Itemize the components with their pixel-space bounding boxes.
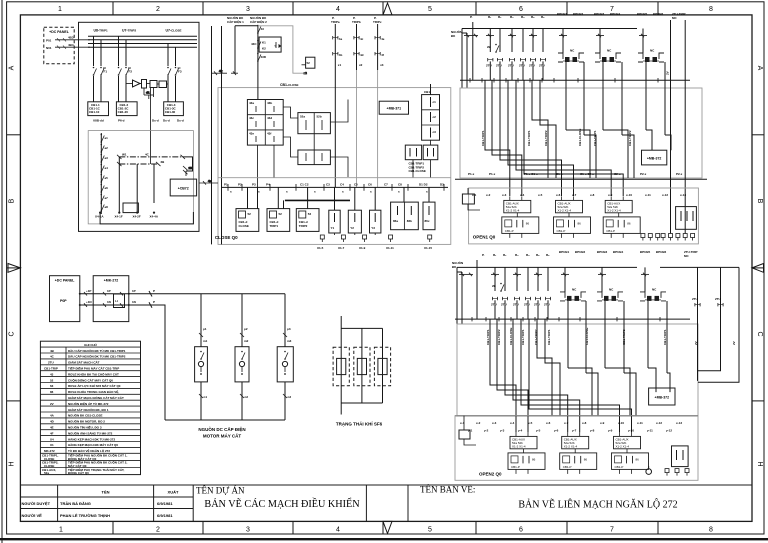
svg-text:43: 43 xyxy=(50,372,54,376)
bracket feed stubs open2 xyxy=(565,267,645,292)
SF6 drop tail xyxy=(340,403,342,415)
left center mark triangle xyxy=(8,264,20,273)
left long verticals xyxy=(212,26,222,244)
svg-text:y-8: y-8 xyxy=(590,429,595,433)
svg-text:P1-x C1-x: P1-x C1-x xyxy=(524,172,538,176)
svg-text:p1: p1 xyxy=(203,327,207,331)
svg-text:m1: m1 xyxy=(203,339,208,343)
svg-text:n3: n3 xyxy=(288,395,292,399)
label pair open2 2 xyxy=(597,250,624,254)
aux box CB1-1 xyxy=(88,102,109,116)
svg-text:x-9: x-9 xyxy=(600,421,605,425)
svg-text:4x: 4x xyxy=(219,69,223,73)
svg-text:OPEN1 Q0: OPEN1 Q0 xyxy=(473,235,496,240)
svg-text:CLOSE: CLOSE xyxy=(239,224,249,228)
block outline OPEN2 (grey) xyxy=(457,324,698,416)
svg-text:2TU: 2TU xyxy=(544,302,550,306)
open2 mesh elbows xyxy=(490,319,632,432)
open1 rotated wire labels xyxy=(481,129,632,146)
bus tick labels xyxy=(224,183,444,194)
svg-text:+1P: +1P xyxy=(86,289,91,293)
svg-text:BẢN VẼ LIÊN MẠCH NGĂN LỘ 272: BẢN VẼ LIÊN MẠCH NGĂN LỘ 272 xyxy=(518,499,677,511)
svg-text:43e: 43e xyxy=(249,131,254,135)
svg-text:CB1-CLOSE: CB1-CLOSE xyxy=(578,129,582,146)
svg-text:X1-15: X1-15 xyxy=(424,246,432,250)
terminal row close block xyxy=(320,235,431,242)
svg-text:a1: a1 xyxy=(105,136,109,140)
svg-text:x-13: x-13 xyxy=(676,421,682,425)
svg-text:x3: x3 xyxy=(380,63,384,67)
svg-text:c3: c3 xyxy=(433,130,437,134)
legend row texts xyxy=(42,348,127,475)
wire feeder top link xyxy=(235,26,258,73)
relay group 2 open1 xyxy=(554,196,591,238)
svg-text:NGUỒN DC CẤP ĐIỆN: NGUỒN DC CẤP ĐIỆN xyxy=(198,425,245,432)
svg-text:6/9/1981: 6/9/1981 xyxy=(157,501,173,506)
output coil box 6 xyxy=(370,210,381,233)
output box 8 xyxy=(423,202,435,230)
relay group 3 open1 xyxy=(603,196,640,238)
svg-text:4B3: 4B3 xyxy=(68,36,74,40)
label pair 2TU 3 xyxy=(637,12,664,16)
svg-text:n1: n1 xyxy=(204,395,208,399)
svg-text:DẦU CẤP NGUỒN ĐK TỦ MK CB1-TRI: DẦU CẤP NGUỒN ĐK TỦ MK CB1-TRIP2 xyxy=(68,354,126,359)
divider line open2 xyxy=(455,415,698,417)
svg-text:P4: P4 xyxy=(266,183,270,187)
aux box CB1-2 xyxy=(116,102,137,116)
svg-text:43D: 43D xyxy=(261,55,267,59)
relay matrix B xyxy=(298,113,331,134)
svg-text:X1-11: X1-11 xyxy=(386,246,394,250)
contact 43a xyxy=(257,25,264,34)
relay aux contact K2 xyxy=(150,81,157,88)
bottom thick scan line xyxy=(0,538,768,540)
bus P01 xyxy=(88,35,197,37)
svg-text:x-9: x-9 xyxy=(608,193,613,197)
label group R open2 xyxy=(493,253,550,257)
bus mid dark xyxy=(221,186,448,188)
open1 lower label row xyxy=(472,193,686,197)
relay aux contact K1 xyxy=(142,80,147,89)
svg-text:XUẤT: XUẤT xyxy=(168,490,179,495)
svg-text:2TU: 2TU xyxy=(539,64,545,68)
far right vertical 2 open2 xyxy=(698,267,721,370)
panel +CB72 box xyxy=(170,179,196,196)
relay group 1 open1 xyxy=(502,196,539,238)
svg-text:ĐPUB5: ĐPUB5 xyxy=(640,250,651,254)
svg-text:43d: 43d xyxy=(267,116,272,120)
panel +DC PANEL (solid) xyxy=(50,276,80,322)
SF6 dashed box 3 xyxy=(374,347,390,386)
svg-text:43C: 43C xyxy=(251,42,257,46)
svg-text:2TU: 2TU xyxy=(715,297,721,301)
svg-text:CLOSE Q0: CLOSE Q0 xyxy=(215,235,238,240)
SF6 dashed box 1 xyxy=(333,347,349,386)
svg-text:TRIPc: TRIPc xyxy=(373,20,382,24)
svg-text:43: 43 xyxy=(261,27,265,31)
block outline CLOSE (grey) xyxy=(218,88,451,245)
svg-text:CB1-TRIP: CB1-TRIP xyxy=(44,367,58,371)
svg-text:P: P xyxy=(153,289,155,293)
TITLE BLOCK xyxy=(20,485,752,521)
svg-text:x-12: x-12 xyxy=(662,193,668,197)
svg-text:C8: C8 xyxy=(398,183,402,187)
title block row lines xyxy=(20,496,193,498)
svg-text:4: 4 xyxy=(336,527,340,534)
wire SF6 drop 2 xyxy=(361,328,363,403)
contact 4B xyxy=(487,44,499,53)
svg-text:BẢN VẼ CÁC MẠCH ĐIỀU KHIỂN: BẢN VẼ CÁC MẠCH ĐIỀU KHIỂN xyxy=(204,497,360,510)
motor branch 1 xyxy=(195,294,208,420)
svg-text:U8B-dd: U8B-dd xyxy=(93,119,104,123)
svg-text:y-9: y-9 xyxy=(608,429,613,433)
svg-text:C4: C4 xyxy=(340,183,344,187)
svg-text:x-3: x-3 xyxy=(492,421,497,425)
aux box D1 xyxy=(405,145,421,160)
wire tick marks P xyxy=(84,291,152,297)
svg-text:x2: x2 xyxy=(359,63,363,67)
contact 4B open2 xyxy=(492,283,504,292)
svg-text:a5: a5 xyxy=(105,176,109,180)
svg-text:P1: P1 xyxy=(224,183,228,187)
relay group 1 open2 xyxy=(508,432,545,474)
top zone numbers xyxy=(58,6,713,13)
svg-text:2V: 2V xyxy=(732,341,736,345)
terminal labels close block xyxy=(317,246,432,250)
svg-text:X1-9: X1-9 xyxy=(359,246,366,250)
svg-text:52b: 52b xyxy=(317,115,322,119)
left twin feed wires xyxy=(462,29,467,89)
svg-text:4: 4 xyxy=(336,6,340,13)
svg-text:2TU: 2TU xyxy=(519,64,525,68)
svg-text:43f: 43f xyxy=(267,131,271,135)
svg-text:CB1-TRIP1: CB1-TRIP1 xyxy=(486,329,490,345)
svg-text:Y2: Y2 xyxy=(350,226,354,230)
label NGUON DK column 2 xyxy=(250,15,267,24)
SF6 collector xyxy=(341,402,382,404)
svg-text:CB1-TRIP1: CB1-TRIP1 xyxy=(663,329,667,345)
svg-text:4E: 4E xyxy=(50,426,54,430)
svg-text:1P: 1P xyxy=(107,289,111,293)
svg-text:K1: K1 xyxy=(262,41,266,45)
svg-text:86c: 86c xyxy=(425,219,430,223)
bus N01 xyxy=(88,39,197,41)
collector line open1 xyxy=(460,79,690,81)
label pair open2 3 xyxy=(640,250,667,254)
svg-text:y-12: y-12 xyxy=(666,429,672,433)
right center mark triangle xyxy=(752,264,764,273)
contact continuation drops open2 xyxy=(495,300,548,319)
wire close feeder xyxy=(257,26,259,100)
svg-text:C2-x: C2-x xyxy=(614,172,621,176)
label NGUON DK column 1 xyxy=(227,15,244,24)
open2 label row 1 xyxy=(460,421,682,425)
svg-text:Dx-d: Dx-d xyxy=(177,119,184,123)
svg-text:NGUỒN TÍN HIỆU, ĐO 3: NGUỒN TÍN HIỆU, ĐO 3 xyxy=(68,425,102,430)
legend rows xyxy=(40,353,140,468)
svg-text:ĐPUB2: ĐPUB2 xyxy=(573,12,584,16)
aux box CB1-1 text xyxy=(89,103,101,114)
branch 3 supply wires xyxy=(168,44,176,102)
svg-text:6: 6 xyxy=(519,6,523,13)
svg-text:2TU: 2TU xyxy=(486,64,492,68)
svg-text:1P: 1P xyxy=(132,289,136,293)
svg-text:C1-x: C1-x xyxy=(556,172,563,176)
top center mark triangle xyxy=(383,3,392,15)
svg-text:+DC PANEL: +DC PANEL xyxy=(49,30,70,34)
panel box +MB-372 open2 xyxy=(649,388,675,405)
svg-text:R₃: R₃ xyxy=(510,15,514,19)
svg-text:TÊN DỰ ÁN: TÊN DỰ ÁN xyxy=(196,486,245,496)
svg-text:x-5: x-5 xyxy=(528,421,533,425)
label pair 2TU 2 xyxy=(594,12,621,16)
svg-text:X1-7: X1-7 xyxy=(338,246,345,250)
meter box open1 xyxy=(676,207,697,230)
svg-text:y-7: y-7 xyxy=(572,429,577,433)
svg-text:C: C xyxy=(9,331,16,336)
connector marks right xyxy=(183,166,193,174)
branch 2 supply wires xyxy=(119,36,127,102)
svg-text:2TU: 2TU xyxy=(491,302,497,306)
svg-text:TÊN: TÊN xyxy=(102,490,110,495)
svg-text:d1: d1 xyxy=(146,90,150,94)
svg-text:X4: X4 xyxy=(50,437,54,441)
matrix link wires xyxy=(258,100,349,188)
relay logic wires xyxy=(126,84,168,98)
svg-text:7: 7 xyxy=(610,527,614,534)
contact row cluster xyxy=(488,58,546,61)
svg-text:x-8: x-8 xyxy=(582,421,587,425)
svg-text:4d: 4d xyxy=(360,53,364,57)
labels under branch boxes xyxy=(93,119,184,123)
svg-text:CB1-TRIP1: CB1-TRIP1 xyxy=(527,130,531,146)
svg-text:RƠLE KHÓA ĐK TẠI CHỖ MÁY CẮT: RƠLE KHÓA ĐK TẠI CHỖ MÁY CẮT xyxy=(68,371,119,376)
svg-text:CUỘN ĐÓNG CẮT MÁY CẮT Q0: CUỘN ĐÓNG CẮT MÁY CẮT Q0 xyxy=(68,377,113,382)
svg-text:y-3: y-3 xyxy=(500,429,505,433)
bottom motor bus xyxy=(165,419,285,421)
bus open1 top xyxy=(462,28,637,30)
svg-text:H: H xyxy=(9,461,16,466)
svg-text:TRẠNG THÁI KHÍ SF6: TRẠNG THÁI KHÍ SF6 xyxy=(336,420,383,427)
motor branch 3 xyxy=(277,294,293,420)
svg-text:x-4: x-4 xyxy=(510,421,515,425)
wire SF6 feed stem xyxy=(340,316,342,403)
svg-text:a3: a3 xyxy=(105,156,109,160)
relay group 2 open2 xyxy=(560,432,597,474)
svg-text:8: 8 xyxy=(709,527,713,534)
svg-text:C6: C6 xyxy=(368,183,372,187)
svg-text:C1-x C2-x: C1-x C2-x xyxy=(580,172,594,176)
svg-text:x-4: x-4 xyxy=(520,193,525,197)
far right vertical 3 open2 xyxy=(698,267,739,382)
meter box open2 xyxy=(672,446,689,467)
aux box wires xyxy=(413,140,431,178)
label pair open2 1 xyxy=(559,250,586,254)
svg-text:ĐPUB3: ĐPUB3 xyxy=(594,12,605,16)
breaker F2 xyxy=(118,67,133,76)
svg-text:A: A xyxy=(756,66,763,71)
collector ticks xyxy=(470,78,658,83)
svg-text:R₄: R₄ xyxy=(521,15,525,19)
svg-text:W1: W1 xyxy=(122,152,127,156)
svg-text:RƠLE ÁP LỰC KHÍ SF6 MÁY CẮT Q0: RƠLE ÁP LỰC KHÍ SF6 MÁY CẮT Q0 xyxy=(68,383,121,388)
svg-text:y-4: y-4 xyxy=(518,429,523,433)
stub labels into block xyxy=(199,179,218,185)
svg-text:a6: a6 xyxy=(105,186,109,190)
interlock box right contact xyxy=(276,42,282,48)
svg-text:P2: P2 xyxy=(238,183,242,187)
left zone letters xyxy=(9,65,16,466)
svg-text:2TU: 2TU xyxy=(508,64,514,68)
aux box CB1-3 text xyxy=(165,103,177,114)
aux box D2 xyxy=(423,145,438,160)
svg-text:R₄: R₄ xyxy=(526,253,530,257)
terminal dots row xyxy=(99,212,155,214)
svg-text:x-3: x-3 xyxy=(502,193,507,197)
terminal wires close block xyxy=(335,233,376,235)
svg-text:P01: P01 xyxy=(46,39,52,43)
block X1 control supply outline xyxy=(79,22,200,231)
outer scan edge line left xyxy=(1,0,3,543)
bus open1 drops xyxy=(473,22,543,80)
svg-text:R₅: R₅ xyxy=(536,253,540,257)
relay logic amp symbol xyxy=(133,80,141,87)
block outline OPEN1 (grey) xyxy=(460,88,702,178)
svg-text:1: 1 xyxy=(58,6,62,13)
svg-text:43b: 43b xyxy=(267,101,272,105)
svg-text:P.: P. xyxy=(470,15,473,19)
coil stack feed wire xyxy=(430,84,432,95)
bus mid grey xyxy=(218,177,451,179)
svg-text:NGUỒN ĐK CB1-CLOSE: NGUỒN ĐK CB1-CLOSE xyxy=(68,413,103,418)
svg-text:X1-5: X1-5 xyxy=(317,246,324,250)
svg-text:CB1-TRIP1: CB1-TRIP1 xyxy=(593,130,597,146)
label group R1-R6 xyxy=(488,15,545,19)
svg-text:X1: X1 xyxy=(50,443,54,447)
svg-text:4b: 4b xyxy=(339,53,343,57)
contact cluster open2 xyxy=(492,297,550,300)
terminal squares open2 xyxy=(665,469,689,476)
svg-text:CB1-30: CB1-30 xyxy=(165,110,176,114)
svg-text:x-7: x-7 xyxy=(564,421,569,425)
svg-text:TRIPa: TRIPa xyxy=(331,20,340,24)
svg-text:CB1-TRIP1: CB1-TRIP1 xyxy=(481,130,485,146)
svg-text:x-12: x-12 xyxy=(656,421,662,425)
svg-text:CB1-10: CB1-10 xyxy=(89,110,100,114)
relay group 3 open2 xyxy=(612,432,649,474)
svg-text:2: 2 xyxy=(156,6,160,13)
wire labels N xyxy=(86,300,155,304)
wire grey route xyxy=(258,26,306,73)
cable link return elbow xyxy=(183,157,193,176)
bus P02 xyxy=(88,43,197,45)
svg-text:4e: 4e xyxy=(381,37,385,41)
svg-text:ĐPUB6: ĐPUB6 xyxy=(656,250,667,254)
svg-text:2TU: 2TU xyxy=(692,297,698,301)
output twin box 7 xyxy=(391,202,419,230)
svg-text:CB1-TRIP1: CB1-TRIP1 xyxy=(521,329,525,345)
svg-text:Dx-d: Dx-d xyxy=(152,119,159,123)
svg-text:HÀNG KẸP MẠCH ĐK TỦ MK-272: HÀNG KẸP MẠCH ĐK TỦ MK-272 xyxy=(68,436,115,441)
panel box +MB-372 open1 xyxy=(642,150,667,165)
svg-text:A: A xyxy=(9,65,16,70)
svg-text:+DC PANEL: +DC PANEL xyxy=(55,279,76,283)
svg-text:x-8: x-8 xyxy=(590,193,595,197)
contact 43D xyxy=(257,53,267,62)
svg-text:y-11: y-11 xyxy=(647,429,653,433)
panel +MK-272 xyxy=(93,276,129,322)
contact continuation drops open1 xyxy=(490,61,543,80)
svg-text:2TU: 2TU xyxy=(48,361,54,365)
svg-text:+MB-372: +MB-372 xyxy=(647,157,662,161)
relay matrix C xyxy=(298,150,331,165)
title block verticals xyxy=(57,485,59,521)
bottom tie bus xyxy=(100,212,193,224)
svg-text:y-10: y-10 xyxy=(628,429,634,433)
svg-text:4a: 4a xyxy=(339,37,343,41)
svg-text:86: 86 xyxy=(50,390,54,394)
svg-text:2TU: 2TU xyxy=(496,64,502,68)
output relay box 2 xyxy=(267,209,290,232)
svg-text:D3: D3 xyxy=(440,183,444,187)
output relay wires drop xyxy=(248,187,430,210)
label right top 2-line xyxy=(672,12,686,20)
contact row labels xyxy=(486,64,545,68)
svg-text:m3: m3 xyxy=(287,339,292,343)
svg-text:P0P: P0P xyxy=(60,299,67,303)
terminal row open1 xyxy=(641,234,695,241)
svg-text:CB1-CLOSE: CB1-CLOSE xyxy=(509,328,513,345)
svg-text:p3: p3 xyxy=(287,327,291,331)
title block small texts xyxy=(22,490,180,519)
lower section rect open1 xyxy=(469,188,699,244)
svg-text:Dx-d: Dx-d xyxy=(163,119,170,123)
svg-text:43c: 43c xyxy=(249,116,254,120)
left notch box open2 xyxy=(459,416,476,445)
svg-text:x-2: x-2 xyxy=(486,193,491,197)
far right contacts open2 xyxy=(692,297,736,345)
label left feed open2 xyxy=(452,260,463,269)
svg-text:CB1-20: CB1-20 xyxy=(118,110,129,114)
svg-text:X4-1F: X4-1F xyxy=(115,215,123,219)
svg-text:ĐPUB3: ĐPUB3 xyxy=(597,250,608,254)
svg-text:B: B xyxy=(9,198,16,203)
wire motor bus P xyxy=(80,293,285,295)
svg-text:m2: m2 xyxy=(244,339,249,343)
svg-text:x-6: x-6 xyxy=(556,193,561,197)
SF6 dashed box 2 xyxy=(354,347,370,386)
svg-text:2TU: 2TU xyxy=(513,302,519,306)
motor branch 2 xyxy=(235,294,249,420)
tick row mid-left xyxy=(212,69,238,75)
interlock box K52 xyxy=(259,37,281,52)
svg-text:+MB-371: +MB-371 xyxy=(387,107,402,111)
bracket relay 2 open2 xyxy=(597,292,623,301)
svg-text:CẤP ĐIỆN 2: CẤP ĐIỆN 2 xyxy=(250,19,267,24)
svg-text:C3: C3 xyxy=(326,183,330,187)
contact chain symbols xyxy=(101,134,109,212)
MK inner connector box xyxy=(114,294,125,308)
svg-text:5: 5 xyxy=(428,527,432,534)
svg-text:2TU: 2TU xyxy=(524,302,530,306)
open2 rotated wire labels row1 xyxy=(486,328,698,345)
svg-text:U8-TRIP1: U8-TRIP1 xyxy=(94,29,108,33)
contact cluster labels open2 xyxy=(491,302,550,306)
svg-text:y-5: y-5 xyxy=(536,429,541,433)
bracket feed stubs xyxy=(563,29,643,54)
wires down from cable links xyxy=(119,157,154,213)
output relay box 1 xyxy=(236,209,259,232)
